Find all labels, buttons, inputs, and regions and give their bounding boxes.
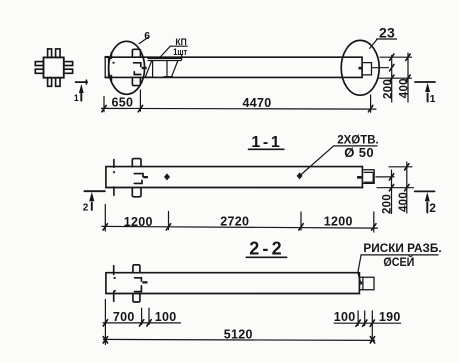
dim extension 2-2 x141 (141, 308, 143, 324)
bottom anchor stub (132, 77, 140, 85)
dim extension 1-1 x301 (300, 212, 302, 230)
console KP bottom mid (164, 76, 173, 78)
svg-text:2: 2 (83, 203, 89, 214)
svg-text:1200: 1200 (324, 214, 353, 228)
column end plate left (105, 57, 108, 78)
section marker 1 left bar (76, 80, 88, 84)
tick 200 a (390, 65, 394, 71)
label bar 2xotv (334, 145, 377, 147)
riska dash 1-1 bottom (113, 187, 115, 195)
tick 1-1 b (166, 224, 170, 230)
tick 700 b (139, 320, 143, 326)
section marker 1 left shaft (80, 94, 82, 101)
dim extension 2-2 x105 (104, 300, 106, 345)
dim extension 1-1 x105 (104, 205, 106, 232)
console KP end tick (181, 55, 183, 61)
embedded bracket upper 1-1 (134, 174, 143, 177)
section marker 1 right arrow (425, 83, 430, 92)
dim extension 1-1 x374 (373, 212, 375, 232)
cross-section right stub b (64, 69, 73, 73)
dim line 1-1 (102, 226, 378, 228)
svg-text:700: 700 (113, 310, 135, 324)
leader to label 6 (139, 37, 148, 43)
tick 5120 left b (103, 337, 107, 343)
riska dash 2-2 top (113, 266, 115, 275)
cross-section right stub a (64, 62, 73, 66)
embedded bracket upper 2-2 (135, 278, 142, 281)
column 2-2 right end (358, 273, 360, 294)
tick 700 a (103, 320, 107, 326)
column top edge (105, 56, 362, 58)
tick 400 1-1 a (405, 164, 409, 170)
svg-text:5120: 5120 (224, 327, 253, 341)
tick r190 b (370, 320, 374, 326)
top anchor stub 2-2 (133, 265, 140, 273)
tick 200 b (390, 75, 394, 81)
tick 650 b (138, 105, 142, 111)
dim line 200 1-1 (391, 170, 393, 214)
riska dot right top view (359, 67, 363, 70)
inner bracket tenon 1-1 (364, 172, 373, 182)
title 2-2 underline (246, 256, 286, 258)
tick 1-1 d (372, 224, 376, 230)
cross-section left stub a (35, 62, 43, 66)
column 1-1 left end (105, 167, 107, 188)
dot 1-1 (113, 171, 115, 173)
dim line 200 top view (391, 56, 393, 103)
tick 5120 right a (370, 337, 374, 343)
detail ellipse 23 (341, 40, 379, 95)
extension line center right (372, 67, 388, 69)
section marker 1 right bar (415, 81, 435, 83)
svg-text:1шт: 1шт (173, 47, 187, 57)
bottom anchor stub 1-1 (132, 188, 141, 197)
extension line bottom right (379, 77, 412, 79)
console KP left diagonal (145, 61, 152, 78)
dim line top view (102, 107, 377, 110)
svg-text:200: 200 (381, 194, 393, 214)
extension line top right (380, 56, 412, 58)
column 1-1 bottom edge (106, 187, 363, 189)
cross-section top stub a (48, 49, 52, 58)
riska dot 1-1 right (357, 176, 361, 179)
right tenon 1-1 (362, 170, 374, 184)
embedded plate bracket lower (134, 72, 141, 75)
svg-text:23: 23 (379, 25, 395, 41)
svg-text:1200: 1200 (124, 215, 153, 229)
dot 2-2 upper (114, 277, 116, 279)
tick 4470 b (368, 105, 372, 111)
extension center 1-1 right (376, 176, 394, 178)
svg-text:РИСКИ РАЗБ.: РИСКИ РАЗБ. (363, 241, 441, 255)
console KP right diagonal (171, 61, 178, 78)
embedded thick dash 1-1 (143, 176, 148, 178)
KP leader (159, 46, 170, 58)
svg-text:400: 400 (398, 192, 410, 212)
svg-text:6: 6 (144, 30, 150, 42)
riska dash 1-1 top (113, 160, 115, 168)
right tenon top view (363, 63, 372, 75)
section marker 2 right arrow (425, 192, 430, 201)
svg-text:4470: 4470 (242, 96, 271, 110)
label 23 underline (377, 38, 397, 40)
tick 400 b (406, 75, 410, 81)
tick r100 b (363, 320, 367, 326)
dim extension 650 right (139, 90, 141, 111)
svg-text:100: 100 (155, 310, 177, 324)
dim extension 2-2 x149 (148, 308, 150, 324)
dim extension 2-2 x358 (357, 311, 359, 326)
tick 200 top (390, 54, 394, 60)
tenon inner line 2-2 (362, 277, 364, 290)
embedded thick dash 2-2 (142, 281, 147, 283)
title 1-1 underline (249, 148, 284, 150)
leader 2 holes (300, 146, 334, 176)
cross-section top stub b (56, 49, 60, 58)
cross-section bottom stub a (48, 78, 52, 87)
tick 650 a (102, 105, 106, 111)
column 2-2 bottom edge (106, 293, 360, 295)
riski underline (361, 254, 438, 256)
riska dash 2-2 bottom (113, 292, 115, 301)
tick 1-1 c (299, 224, 303, 230)
svg-text:2: 2 (429, 201, 436, 215)
embedded plate thick dash (142, 67, 147, 69)
dim extension 2-2 x364 (364, 311, 366, 326)
detail ellipse 6 (109, 41, 145, 94)
section marker 1 left arrow (79, 84, 84, 93)
console KP mid leg (166, 61, 168, 77)
console KP left leg (152, 61, 154, 78)
section marker 2 left arrow (89, 192, 94, 201)
section marker 2 left shaft (91, 202, 93, 210)
riska dash bottom left (110, 75, 112, 81)
tick 5120 left a (103, 337, 107, 343)
console KP top bar (148, 58, 181, 60)
dim extension 2-2 x372 (371, 311, 373, 340)
dim extension 4470 right (370, 95, 372, 112)
svg-text:ØСЕЙ: ØСЕЙ (383, 256, 414, 269)
svg-text:Ø 50: Ø 50 (344, 145, 374, 160)
dot in column (113, 62, 115, 64)
dim extension 650 left (103, 97, 105, 112)
svg-text:400: 400 (399, 78, 411, 98)
embedded bracket lower 2-2 (135, 286, 142, 292)
console KP bottom left (145, 76, 153, 78)
tick 100 b (147, 320, 151, 326)
svg-text:1: 1 (74, 93, 79, 103)
tick 200 1-1 b (389, 185, 393, 191)
dim line 400 1-1 (406, 162, 408, 213)
cross-section bottom stub b (56, 78, 60, 87)
column right end line (361, 57, 363, 77)
svg-text:200: 200 (382, 79, 394, 99)
svg-text:2720: 2720 (220, 215, 249, 229)
tick r100 a (356, 320, 360, 326)
riska dash top left (110, 52, 112, 58)
column 2-2 left end (105, 273, 107, 294)
tick 5120 right b (370, 337, 374, 343)
svg-text:1-1: 1-1 (251, 134, 282, 151)
tick 400 a (406, 54, 410, 60)
column 1-1 right end (361, 167, 363, 188)
embedded plate bracket upper (134, 63, 141, 67)
top anchor stub 1-1 (132, 159, 141, 167)
leader to label 23 (370, 39, 378, 48)
section marker 2 left bar (84, 190, 105, 192)
extension top 1-1 right (389, 166, 412, 168)
svg-text:1: 1 (430, 93, 436, 105)
cross-section left stub b (35, 69, 43, 73)
dim line 700-100 (103, 322, 181, 324)
embedded bracket lower 1-1 (134, 180, 142, 183)
right tenon 2-2 (359, 277, 374, 290)
top anchor stub (132, 49, 140, 57)
tick 200 1-1 a (389, 174, 393, 180)
column bottom edge (105, 76, 362, 78)
tick 1-1 a (103, 224, 107, 230)
section marker 2 right bar (415, 190, 435, 192)
dim line 100-190 (334, 322, 400, 324)
dot 2-2 lower (114, 290, 116, 292)
extension bottom 1-1 right (377, 187, 414, 189)
bottom anchor stub 2-2 (133, 294, 140, 303)
riska dot 2-2 right (359, 281, 363, 284)
riski leader (358, 255, 361, 281)
svg-text:2-2: 2-2 (249, 239, 285, 259)
hole diamond right (297, 172, 303, 179)
hole diamond left (164, 173, 170, 180)
dim extension 1-1 x168 (168, 212, 170, 230)
svg-text:190: 190 (379, 310, 401, 324)
svg-text:100: 100 (334, 310, 356, 324)
tick 400 1-1 b (405, 185, 409, 191)
column 2-2 top edge (106, 272, 360, 274)
dim line 400 top view (407, 53, 409, 102)
KP fraction bar (170, 45, 187, 47)
column 1-1 top edge (106, 166, 363, 168)
section marker 2 right shaft (426, 203, 428, 213)
section marker 1 right shaft (427, 93, 429, 101)
cross-section symbol square (44, 57, 64, 77)
dim line 5120 (104, 339, 375, 340)
svg-text:650: 650 (112, 96, 134, 110)
